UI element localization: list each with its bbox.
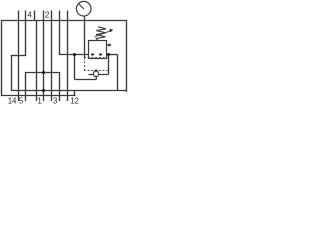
bottom stub port 5 [25, 96, 27, 101]
plate right edge [126, 20, 128, 92]
wire horizontal y72 [25, 72, 60, 74]
flow arrowhead 1 [92, 53, 95, 56]
top stub port 4 left [25, 11, 27, 21]
wire jog y55 [11, 55, 26, 57]
plate left edge [1, 20, 3, 96]
svg-text:2: 2 [45, 11, 50, 20]
wire vertical x18 through [18, 20, 20, 96]
junction dot flow right [107, 53, 110, 56]
top stub port 2 right [51, 11, 53, 21]
bottom stub port 1 [36, 96, 38, 101]
svg-text:3: 3 [53, 97, 58, 106]
top stub port 4 right [34, 11, 36, 21]
pressure gauge [76, 1, 91, 16]
bottom stub port 14 [18, 96, 20, 101]
wire vertical x51 [51, 20, 53, 96]
svg-text:12: 12 [70, 97, 79, 106]
plate top edge [1, 20, 127, 22]
bottom stub [59, 96, 61, 101]
bottom stub port 12 [67, 96, 69, 101]
top stub port 2 left [43, 11, 45, 21]
flow arrowhead 2 [100, 53, 103, 56]
wire flow line left [60, 54, 89, 56]
bottom stub port 3 [51, 96, 53, 101]
adjustment arrowhead [109, 29, 113, 33]
svg-text:1: 1 [37, 97, 42, 106]
wire vertical x36 [36, 20, 38, 96]
svg-text:4: 4 [27, 11, 32, 20]
wire short vertical at bottom line end [74, 91, 76, 96]
svg-text:14: 14 [8, 97, 17, 106]
wire vertical x43 [43, 20, 45, 96]
bottom stub [43, 96, 45, 101]
top stub port 14 [18, 11, 20, 21]
wire horizontal y79 under nozzle [75, 79, 97, 81]
wire vertical x117 [117, 55, 119, 92]
junction dot y72 [42, 71, 45, 74]
wire vertical x25 lower [25, 72, 27, 96]
gauge needle [79, 4, 84, 9]
gauge stem [84, 16, 86, 58]
svg-text:5: 5 [19, 97, 24, 106]
junction dot y90 [42, 89, 45, 92]
wire vertical x67 through [67, 20, 69, 96]
plate bottom edge left part [1, 95, 76, 97]
wire long horizontal y90 [11, 90, 127, 92]
junction dot flow left [73, 53, 76, 56]
adjustment arrow diagonal [95, 31, 112, 37]
wire vertical x11 [11, 55, 13, 91]
regulator body [89, 41, 107, 59]
wire vertical x59 lower [59, 72, 61, 96]
wire vertical x25 upper [25, 20, 27, 56]
vent nozzle circle [93, 71, 98, 76]
pilot line horizontal [89, 74, 109, 76]
top stub port 12 [67, 11, 69, 21]
vent nozzle triangle [94, 69, 98, 71]
relief arrow [107, 44, 110, 46]
wire flow line right [107, 54, 118, 56]
adjustment spring [96, 27, 106, 40]
wire vertical x74 pilot branch [74, 55, 76, 80]
pilot line vertical [108, 55, 110, 75]
wire vertical x59 upper [59, 20, 61, 55]
top stub port 3 [59, 11, 61, 21]
pilot dashed box [84, 58, 109, 72]
wire nozzle drop [95, 77, 97, 80]
